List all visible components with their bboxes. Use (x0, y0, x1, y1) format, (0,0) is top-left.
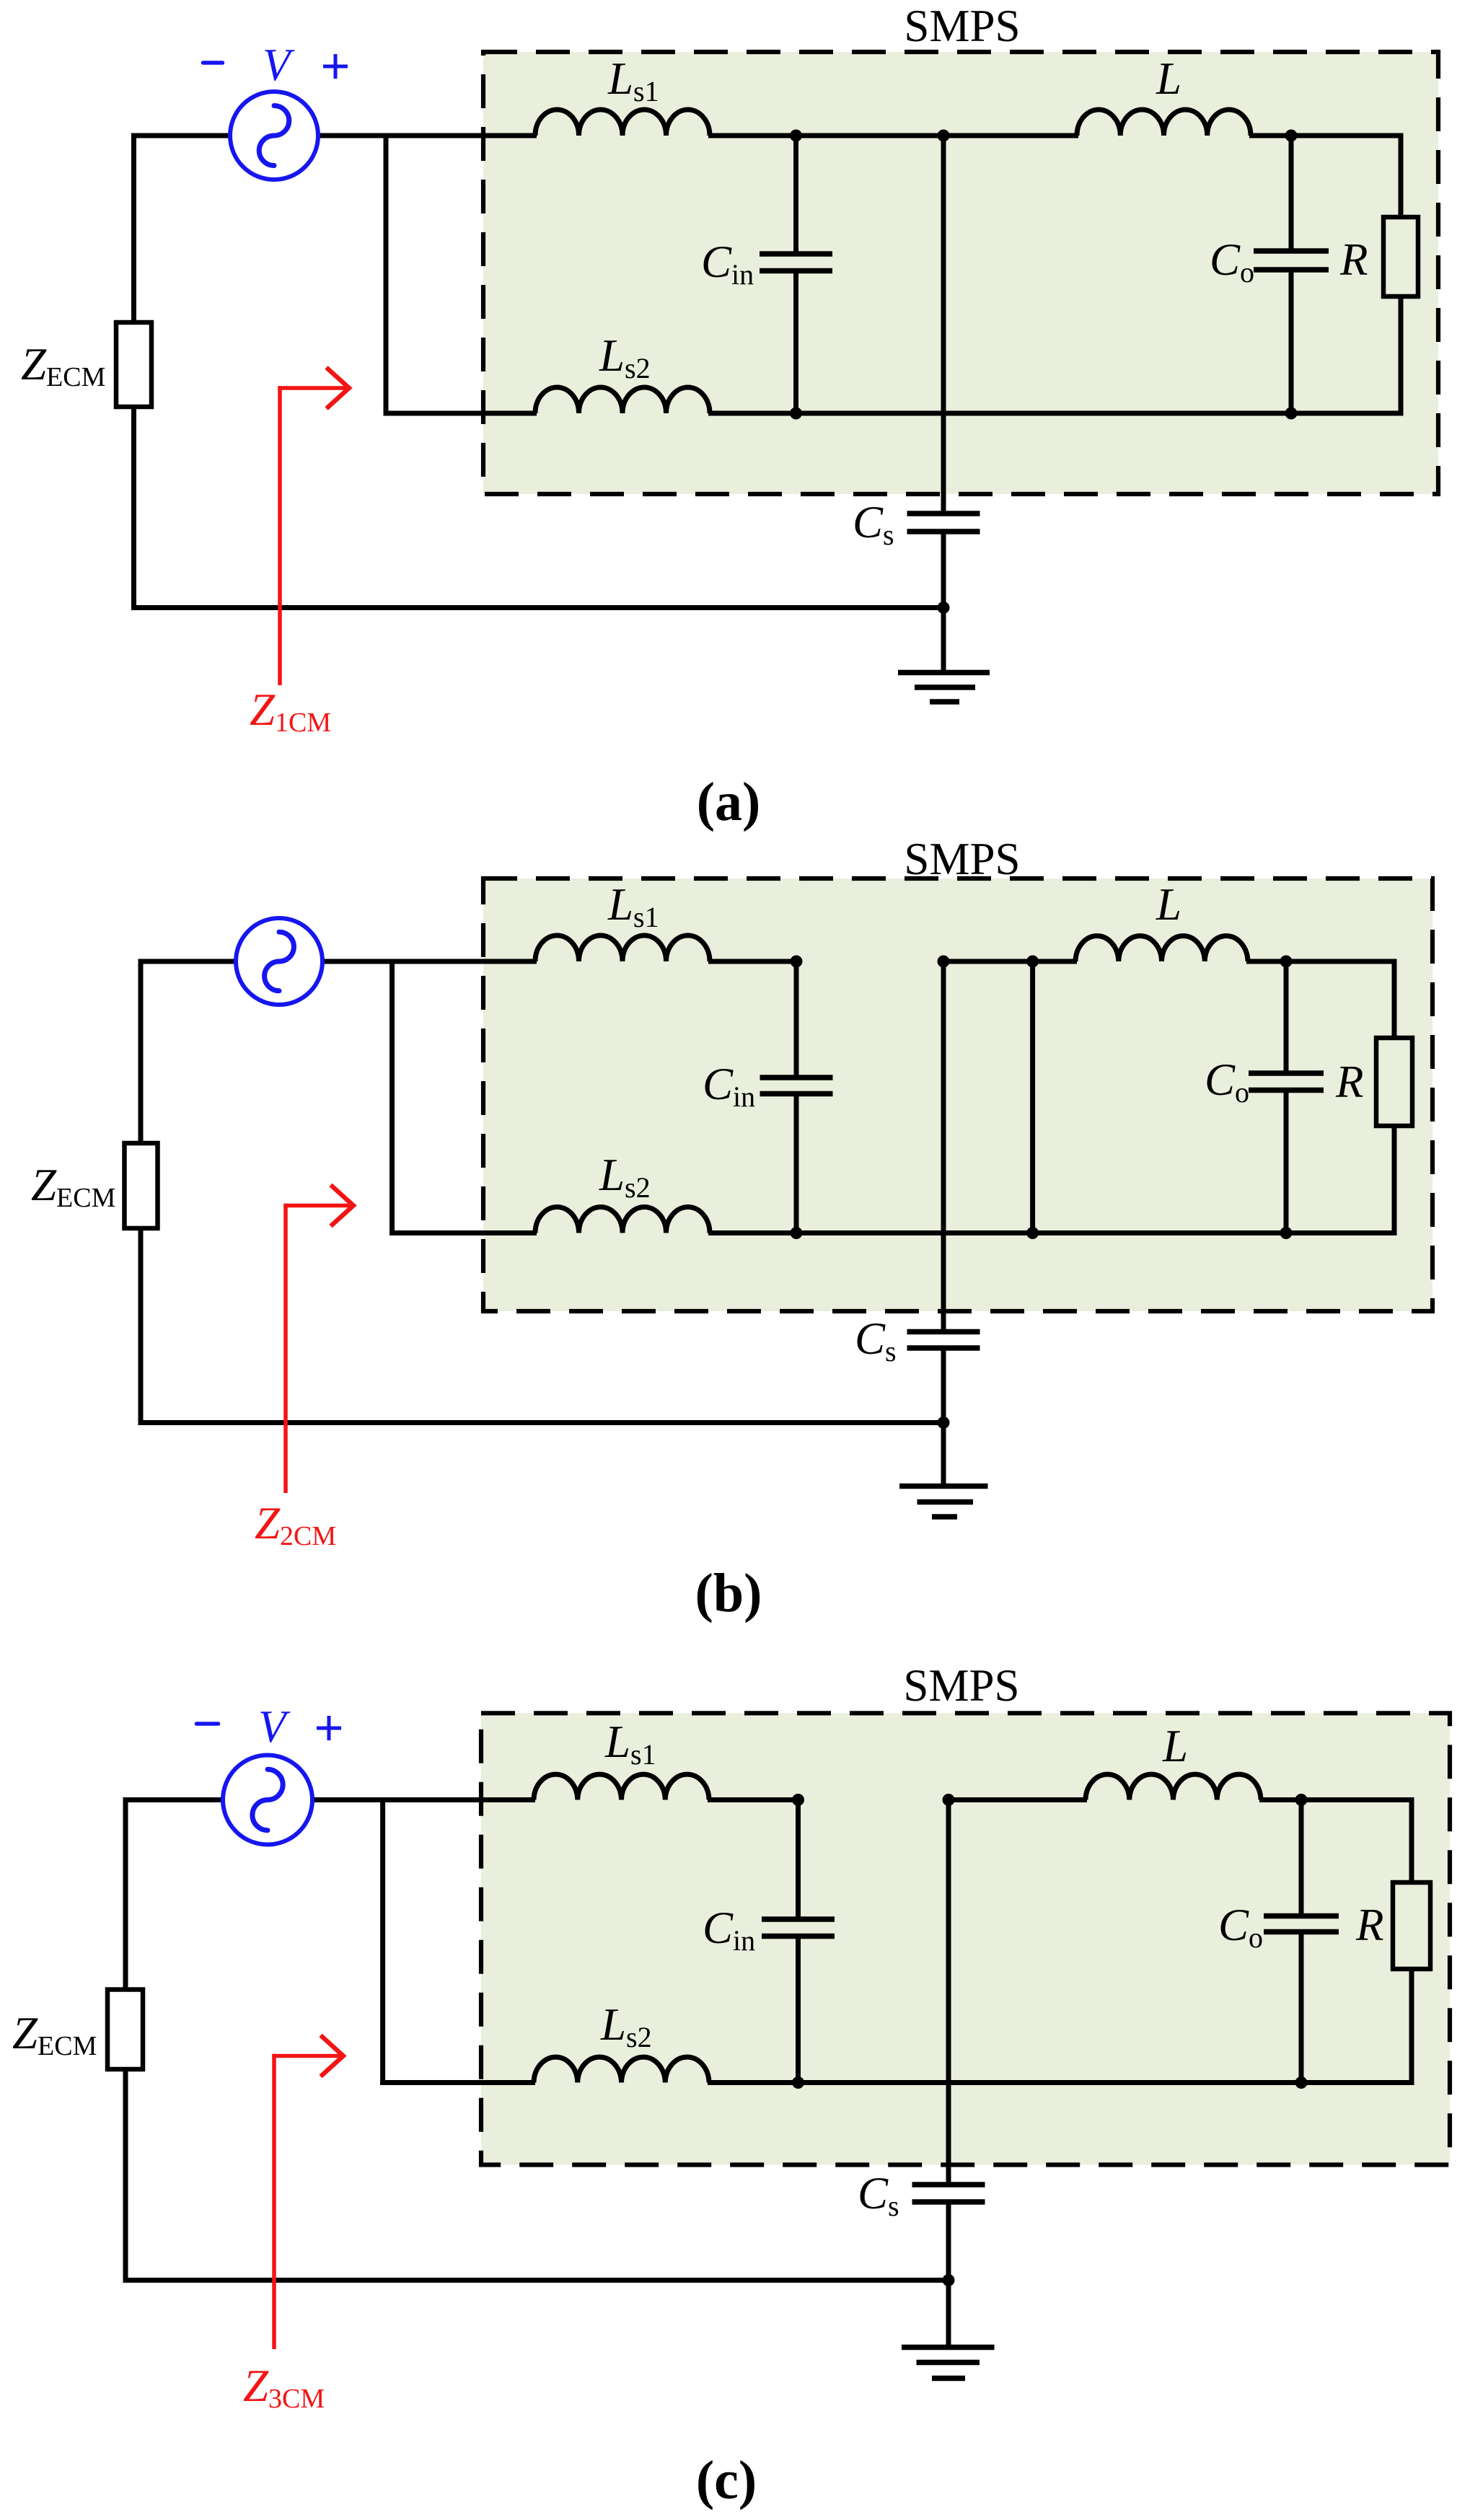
SMPS boundary box (dashed) (483, 52, 1438, 494)
svg-text:L: L (1162, 1721, 1188, 1771)
svg-text:V: V (258, 1701, 291, 1752)
wire: Ls1 to mid (708, 133, 1078, 138)
label - V + (197, 1701, 342, 1752)
svg-text:(c): (c) (696, 2450, 757, 2511)
wire: L to R (1249, 133, 1404, 138)
wire: lower line, drop to Ls2 (389, 1230, 537, 1235)
ground (902, 2281, 995, 2379)
resistor R (1376, 961, 1412, 1233)
node junction (792, 2076, 804, 2089)
node junction (790, 407, 802, 420)
impedance Z_ECM (116, 322, 151, 407)
capacitor Cs branch (907, 136, 980, 608)
impedance Z_ECM (107, 1990, 143, 2070)
wire: bottom return rail (138, 1420, 944, 1425)
wire: left rail lower (131, 405, 136, 610)
capacitor Cin (760, 136, 832, 413)
svg-text:(a): (a) (697, 772, 761, 832)
svg-text:R: R (1335, 1057, 1363, 1107)
wire: branch drop to lower line (380, 1800, 385, 2086)
wire: left rail to source (123, 1797, 225, 1802)
measurement arrow Z_3CM (272, 2035, 343, 2349)
capacitor Cin (762, 1800, 835, 2083)
node junction (1295, 1794, 1308, 1806)
wire: Ls1 to mid (708, 959, 796, 964)
resistor R (1383, 136, 1418, 413)
wire: left rail to source (138, 959, 238, 964)
capacitor Co (1254, 136, 1329, 413)
node junction (938, 1417, 950, 1429)
capacitor Co (1264, 1800, 1339, 2083)
svg-text:R: R (1339, 234, 1368, 285)
wire: source to Ls1 (321, 959, 537, 964)
svg-text:SMPS: SMPS (904, 834, 1020, 884)
svg-text:(b): (b) (695, 1563, 762, 1624)
capacitor Co (1249, 961, 1324, 1233)
wire: lower line, Ls2 to R (708, 1230, 1397, 1235)
wire: left rail lower (138, 1226, 144, 1425)
wire: left rail upper (138, 961, 144, 1145)
SMPS boundary box (dashed) (481, 1713, 1450, 2164)
node junction (791, 956, 803, 968)
inductor Ls2 (534, 2057, 709, 2082)
node junction (938, 956, 950, 968)
node junction (1285, 130, 1298, 142)
wire: bottom return rail (123, 2278, 949, 2283)
inductor L (1086, 1774, 1261, 1799)
node junction (1280, 1227, 1293, 1239)
measurement arrow Z_2CM (283, 1185, 353, 1493)
wire: L to R (1246, 959, 1397, 964)
wire: mid to L (949, 1797, 1087, 1802)
node junction (1026, 956, 1039, 968)
wire: left rail upper (131, 136, 136, 325)
node junction (790, 130, 802, 142)
ground (898, 608, 990, 702)
voltage source V (230, 92, 318, 180)
node junction (1295, 2076, 1308, 2089)
label - V + (203, 40, 348, 90)
wire: Ls1 to mid (708, 1797, 798, 1802)
wire: branch drop to lower line (389, 961, 395, 1235)
capacitor Cin (760, 961, 833, 1233)
impedance Z_ECM (125, 1143, 158, 1228)
wire: source to Ls1 (317, 133, 537, 138)
node junction (1280, 956, 1293, 968)
measurement arrow Z_1CM (278, 368, 349, 686)
node junction (1285, 407, 1298, 420)
node junction (943, 1794, 955, 1806)
inductor Ls1 (534, 1774, 709, 1799)
wire: left rail lower (123, 2067, 128, 2283)
node junction (791, 1227, 803, 1239)
svg-text:SMPS: SMPS (903, 1660, 1019, 1711)
wire: lower line, drop to Ls2 (380, 2080, 535, 2085)
wire: switching-node vertical (1030, 961, 1035, 1233)
wire: lower line, Ls2 to R (708, 2080, 1414, 2085)
inductor L (1075, 936, 1248, 961)
ground (899, 1423, 988, 1517)
wire: bottom return rail (131, 605, 943, 610)
resistor R (1393, 1800, 1430, 2083)
voltage source V (223, 1755, 312, 1845)
inductor L (1077, 110, 1251, 136)
svg-text:SMPS: SMPS (904, 1, 1020, 51)
wire: lower line, drop to Ls2 (384, 411, 537, 416)
wire: branch drop to lower line (384, 136, 389, 416)
SMPS boundary box (dashed) (483, 878, 1432, 1311)
capacitor Cs branch (912, 1800, 985, 2281)
wire: left rail upper (123, 1800, 128, 1992)
wire: mid to L (943, 959, 1077, 964)
inductor Ls1 (535, 935, 710, 961)
capacitor Cs branch (907, 961, 980, 1423)
node junction (938, 602, 950, 614)
node junction (1026, 1227, 1039, 1239)
node junction (938, 130, 950, 142)
inductor Ls1 (535, 110, 710, 136)
inductor Ls2 (535, 1207, 710, 1233)
svg-text:L: L (1156, 53, 1181, 104)
svg-text:L: L (1156, 879, 1181, 930)
wire: left rail to source (131, 133, 232, 138)
wire: L to R (1259, 1797, 1414, 1802)
svg-text:V: V (263, 40, 295, 90)
voltage source V (236, 918, 322, 1005)
node junction (943, 2274, 955, 2286)
wire: source to Ls1 (311, 1797, 535, 1802)
wire: lower line, Ls2 to R (708, 411, 1404, 416)
node junction (792, 1794, 804, 1806)
svg-text:R: R (1355, 1900, 1383, 1950)
inductor Ls2 (535, 387, 710, 413)
